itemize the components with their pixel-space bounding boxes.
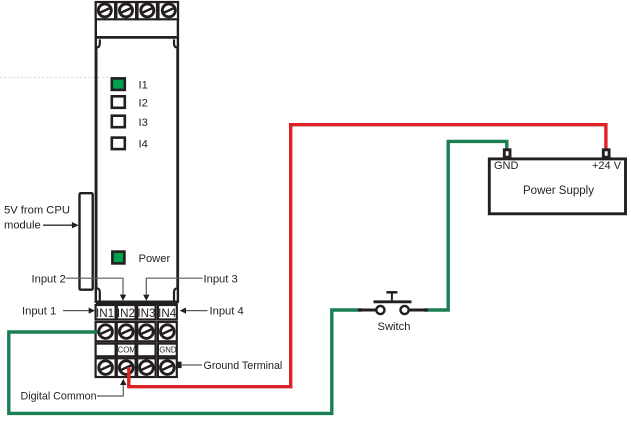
wire: red from COM terminal, down, right, up, to power supply +24V (129, 125, 606, 387)
svg-text:Digital Common: Digital Common (21, 391, 97, 403)
wire leader Input 1 (63, 308, 95, 314)
bottom terminal block row: upper screw cells (96, 322, 177, 341)
label Input 3 with leader (204, 274, 238, 286)
svg-text:GND: GND (159, 346, 177, 355)
power supply GND stub (504, 150, 510, 157)
module top terminal block: screw boxes (96, 2, 178, 19)
svg-text:5V from CPU: 5V from CPU (4, 205, 70, 217)
pin label IN3 (137, 307, 155, 320)
power supply +24V stub (603, 150, 609, 157)
ground terminal stub (177, 362, 182, 368)
terminal screw IN2 (119, 325, 133, 339)
label I4 (139, 139, 148, 151)
Power LED (112, 252, 124, 264)
svg-text:Power: Power (139, 253, 171, 265)
pin label COM (118, 346, 136, 355)
svg-text:Input 4: Input 4 (210, 306, 244, 318)
svg-text:I4: I4 (139, 139, 148, 151)
pin label IN4 (158, 307, 177, 320)
svg-text:Switch: Switch (378, 321, 411, 333)
svg-text:Ground Terminal: Ground Terminal (204, 360, 283, 372)
label Digital Common with leader (21, 379, 127, 403)
LED I4 (112, 138, 125, 150)
terminal screw IN4 (161, 325, 175, 339)
terminal screw IN3 (140, 325, 154, 339)
bottom terminal block row: COM/GND cells (96, 344, 177, 357)
top terminal screw 4 (162, 4, 175, 17)
LED I2 (112, 96, 125, 108)
svg-text:COM: COM (118, 346, 136, 355)
label 5V from CPU module (4, 205, 70, 232)
svg-text:Input 1: Input 1 (22, 306, 56, 318)
svg-text:module: module (4, 220, 41, 232)
svg-text:I2: I2 (139, 97, 148, 109)
label Ground Terminal with leader (182, 360, 283, 372)
module face panel outline (96, 37, 178, 302)
label Input 1 with leader (22, 306, 56, 318)
label +24 V (592, 160, 622, 172)
label Input 2 with leader (32, 274, 66, 286)
terminal screw 3 lower row (140, 361, 154, 375)
svg-text:I3: I3 (139, 117, 148, 129)
label Power Supply (523, 185, 594, 197)
wire: green from switch right, up, to power supply GND (424, 141, 507, 310)
label I1 (139, 80, 148, 92)
module outer body (96, 2, 178, 302)
svg-text:+24 V: +24 V (592, 160, 622, 172)
label Input 4 with leader (210, 306, 244, 318)
svg-text:IN1: IN1 (96, 307, 114, 320)
switch S1 (pushbutton) (358, 292, 428, 314)
top terminal screw 3 (141, 4, 154, 17)
wire leader Input 3 (143, 278, 202, 301)
bottom terminal block row: IN labels cells (96, 305, 177, 320)
CPU connector latch (80, 193, 93, 290)
terminal screw COM (digital common) (119, 361, 133, 375)
dashed leader line to LED I1 (0, 76, 111, 78)
terminal screw IN1 (99, 325, 113, 339)
power supply box (489, 159, 625, 214)
svg-text:I1: I1 (139, 80, 148, 92)
pin label IN1 (96, 307, 114, 320)
svg-text:IN2: IN2 (117, 307, 135, 320)
dashed leader line continuation inside module (98, 76, 111, 78)
wire leader Input 2 (66, 278, 127, 301)
label I2 (139, 97, 148, 109)
pin label GND (159, 346, 177, 355)
svg-text:Input 3: Input 3 (204, 274, 238, 286)
wire: green from IN1 terminal left, down, across bottom, up to switch left (9, 310, 362, 413)
top terminal screw 1 (98, 4, 111, 17)
label Power (139, 253, 171, 265)
label Switch (378, 321, 411, 333)
label GND (494, 160, 519, 172)
svg-text:GND: GND (494, 160, 519, 172)
terminal screw COM-row 1 (99, 361, 113, 375)
bottom terminal block row: lower screw cells (96, 358, 177, 377)
pin label IN2 (117, 307, 135, 320)
label I3 (139, 117, 148, 129)
svg-text:IN4: IN4 (158, 307, 177, 320)
svg-text:Power Supply: Power Supply (523, 185, 594, 197)
svg-text:IN3: IN3 (137, 307, 155, 320)
LED I3 (112, 116, 125, 128)
LED I1 (lit) (112, 78, 125, 90)
terminal screw GND (161, 361, 175, 375)
top terminal screw 2 (120, 4, 133, 17)
wire leader Input 4 (180, 308, 208, 314)
arrow to latch (43, 222, 79, 228)
svg-text:Input 2: Input 2 (32, 274, 66, 286)
